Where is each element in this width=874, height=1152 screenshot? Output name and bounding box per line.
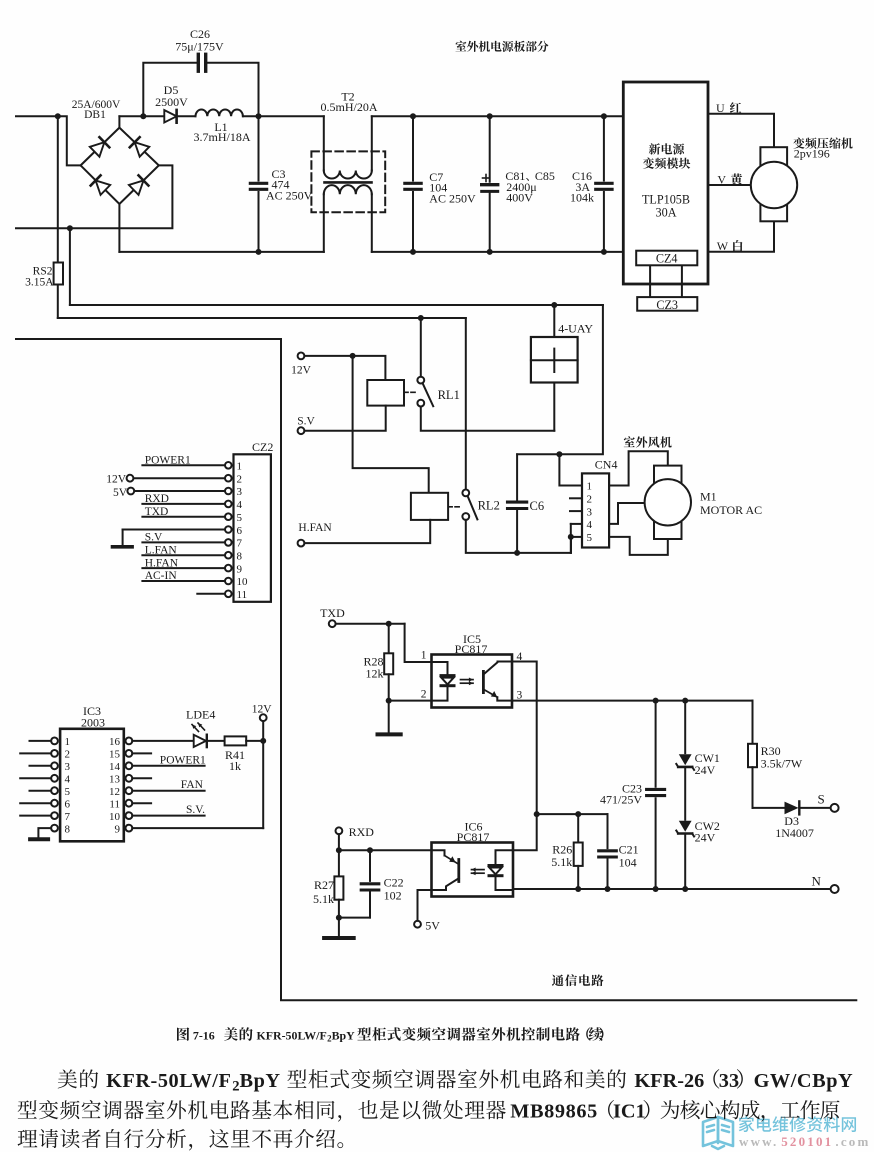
- svg-text:1N4007: 1N4007: [775, 826, 814, 840]
- svg-text:www.: www.: [739, 1134, 779, 1149]
- svg-text:9: 9: [115, 823, 121, 835]
- svg-text:12k: 12k: [366, 666, 384, 680]
- svg-text:10: 10: [237, 576, 249, 588]
- svg-text:DB1: DB1: [84, 109, 106, 121]
- svg-text:104: 104: [619, 856, 637, 870]
- svg-text:N: N: [812, 874, 822, 889]
- svg-text:2: 2: [65, 749, 71, 761]
- svg-text:3.7mH/18A: 3.7mH/18A: [194, 130, 251, 144]
- svg-text:1: 1: [587, 481, 593, 493]
- svg-text:TLP105B: TLP105B: [642, 192, 690, 206]
- svg-text:5V: 5V: [113, 487, 128, 499]
- svg-text:5V: 5V: [425, 919, 440, 933]
- svg-text:1k: 1k: [229, 759, 241, 773]
- svg-text:4-UAY: 4-UAY: [558, 322, 593, 336]
- svg-text:14: 14: [109, 761, 121, 773]
- svg-text:CN4: CN4: [595, 458, 618, 472]
- svg-text:520101: 520101: [781, 1134, 833, 1149]
- svg-text:2003: 2003: [81, 715, 105, 729]
- svg-text:7: 7: [65, 811, 71, 823]
- svg-text:4: 4: [587, 519, 593, 531]
- svg-text:.com: .com: [835, 1134, 870, 1149]
- svg-text:S.V.: S.V.: [186, 804, 205, 816]
- svg-text:AC 250V: AC 250V: [429, 192, 476, 206]
- svg-text:4: 4: [65, 774, 71, 786]
- svg-text:5: 5: [587, 532, 593, 544]
- svg-text:CZ2: CZ2: [252, 440, 273, 454]
- svg-text:12: 12: [109, 786, 120, 798]
- svg-text:IC1: IC1: [613, 1101, 646, 1123]
- svg-text:24V: 24V: [695, 831, 716, 845]
- svg-text:H.FAN: H.FAN: [145, 557, 179, 569]
- svg-text:24V: 24V: [695, 763, 716, 777]
- svg-text:PC817: PC817: [455, 642, 488, 656]
- svg-text:15: 15: [109, 749, 121, 761]
- svg-text:75μ/175V: 75μ/175V: [175, 40, 224, 54]
- svg-text:2: 2: [421, 689, 427, 701]
- svg-text:C85: C85: [535, 169, 555, 183]
- svg-text:TXD: TXD: [320, 606, 345, 620]
- svg-text:104k: 104k: [570, 191, 594, 205]
- svg-text:3.5k/7W: 3.5k/7W: [761, 756, 803, 770]
- svg-text:9: 9: [237, 563, 243, 575]
- svg-text:16: 16: [109, 736, 121, 748]
- svg-text:2500V: 2500V: [155, 95, 188, 109]
- svg-text:MOTOR AC: MOTOR AC: [700, 503, 762, 517]
- svg-text:1: 1: [421, 650, 427, 662]
- svg-text:2pv196: 2pv196: [794, 146, 830, 160]
- svg-text:TXD: TXD: [145, 506, 169, 518]
- svg-text:CZ4: CZ4: [656, 252, 678, 266]
- svg-text:471/25V: 471/25V: [600, 793, 642, 807]
- svg-text:11: 11: [109, 798, 120, 810]
- svg-text:AC-IN: AC-IN: [145, 570, 178, 582]
- svg-text:5.1k: 5.1k: [551, 855, 572, 869]
- svg-text:KFR-50LW/F: KFR-50LW/F: [257, 1029, 327, 1043]
- svg-text:C22: C22: [384, 875, 404, 889]
- svg-text:S.V: S.V: [297, 416, 315, 428]
- svg-text:R27: R27: [314, 878, 334, 892]
- svg-text:KFR-26: KFR-26: [634, 1070, 704, 1092]
- svg-text:6: 6: [237, 525, 243, 537]
- svg-text:C6: C6: [530, 499, 545, 513]
- svg-text:2: 2: [237, 473, 243, 485]
- svg-text:11: 11: [237, 589, 248, 601]
- svg-text:W: W: [717, 239, 729, 253]
- svg-text:400V: 400V: [506, 191, 533, 205]
- svg-text:S.V: S.V: [145, 532, 163, 544]
- svg-text:C21: C21: [619, 843, 639, 857]
- svg-text:12V: 12V: [106, 474, 127, 486]
- svg-text:GW/CBpY: GW/CBpY: [754, 1070, 854, 1092]
- svg-text:3: 3: [517, 689, 523, 701]
- svg-text:10: 10: [109, 811, 121, 823]
- svg-text:S: S: [818, 792, 825, 807]
- svg-text:KFR-50LW/F: KFR-50LW/F: [106, 1070, 231, 1092]
- svg-text:L.FAN: L.FAN: [145, 545, 178, 557]
- svg-text:7: 7: [237, 538, 243, 550]
- svg-text:0.5mH/20A: 0.5mH/20A: [321, 100, 378, 114]
- svg-text:RXD: RXD: [145, 493, 169, 505]
- svg-text:12V: 12V: [291, 364, 312, 376]
- svg-text:POWER1: POWER1: [145, 455, 191, 467]
- svg-text:33: 33: [719, 1070, 739, 1092]
- svg-text:AC 250V: AC 250V: [266, 189, 313, 203]
- svg-text:6: 6: [65, 798, 71, 810]
- svg-text:5: 5: [65, 786, 71, 798]
- svg-text:PC817: PC817: [457, 830, 490, 844]
- svg-text:RXD: RXD: [349, 825, 375, 839]
- svg-text:2: 2: [587, 494, 593, 506]
- svg-text:3: 3: [65, 761, 71, 773]
- svg-text:CZ3: CZ3: [656, 298, 678, 312]
- svg-text:U: U: [716, 101, 725, 115]
- svg-text:5.1k: 5.1k: [313, 892, 334, 906]
- svg-text:H.FAN: H.FAN: [298, 522, 332, 534]
- svg-text:13: 13: [109, 774, 121, 786]
- svg-text:V: V: [717, 172, 726, 186]
- svg-text:BpY: BpY: [240, 1070, 281, 1092]
- svg-text:FAN: FAN: [181, 779, 204, 791]
- svg-text:MB89865: MB89865: [510, 1101, 598, 1123]
- svg-text:3: 3: [587, 506, 593, 518]
- svg-text:4: 4: [237, 499, 243, 511]
- svg-text:3.15A: 3.15A: [25, 277, 54, 289]
- svg-text:8: 8: [65, 823, 71, 835]
- svg-text:3: 3: [237, 486, 243, 498]
- svg-text:7-16: 7-16: [193, 1029, 215, 1043]
- svg-text:1: 1: [237, 461, 243, 473]
- svg-text:POWER1: POWER1: [160, 754, 206, 766]
- svg-text:LDE4: LDE4: [186, 707, 215, 721]
- svg-text:RL2: RL2: [478, 499, 500, 513]
- svg-text:BpY: BpY: [332, 1029, 356, 1043]
- svg-text:5: 5: [237, 512, 243, 524]
- svg-text:102: 102: [384, 888, 402, 902]
- svg-text:12V: 12V: [252, 704, 273, 716]
- svg-text:1: 1: [65, 736, 71, 748]
- svg-text:8: 8: [237, 551, 243, 563]
- svg-text:30A: 30A: [656, 205, 677, 219]
- svg-text:2: 2: [232, 1078, 239, 1094]
- svg-text:M1: M1: [700, 489, 717, 503]
- svg-text:RL1: RL1: [438, 388, 460, 402]
